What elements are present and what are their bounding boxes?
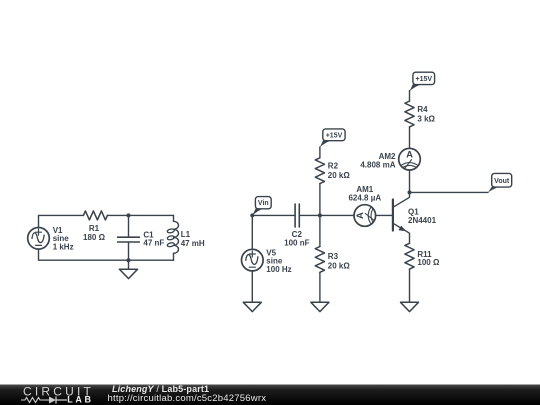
svg-text:3 kΩ: 3 kΩ: [417, 114, 435, 123]
svg-text:100 Ω: 100 Ω: [417, 258, 440, 267]
svg-text:100 nF: 100 nF: [284, 239, 309, 248]
svg-text:1 kHz: 1 kHz: [53, 242, 74, 251]
svg-text:100 Hz: 100 Hz: [266, 265, 291, 274]
svg-text:624.8 µA: 624.8 µA: [348, 193, 381, 202]
svg-text:Vin: Vin: [258, 200, 269, 207]
svg-text:LAB: LAB: [67, 395, 93, 405]
svg-text:20 kΩ: 20 kΩ: [328, 261, 351, 270]
svg-text:+15V: +15V: [416, 76, 433, 83]
svg-text:Vout: Vout: [494, 178, 510, 185]
svg-text:4.808 mA: 4.808 mA: [360, 160, 395, 169]
svg-text:L1: L1: [181, 230, 191, 239]
svg-text:2N4401: 2N4401: [408, 216, 437, 225]
svg-text:180 Ω: 180 Ω: [83, 233, 106, 242]
svg-text:47 mH: 47 mH: [181, 239, 205, 248]
svg-text:R3: R3: [328, 252, 339, 261]
svg-text:http://circuitlab.com/c5c2b427: http://circuitlab.com/c5c2b42756wrx: [108, 393, 267, 404]
svg-text:R4: R4: [417, 105, 428, 114]
svg-text:R2: R2: [328, 162, 339, 171]
svg-text:R1: R1: [89, 224, 100, 233]
svg-text:+15V: +15V: [326, 132, 343, 139]
svg-text:20 kΩ: 20 kΩ: [328, 171, 351, 180]
svg-text:A: A: [355, 212, 366, 219]
svg-text:A: A: [406, 149, 413, 160]
svg-text:47 nF: 47 nF: [143, 239, 164, 248]
